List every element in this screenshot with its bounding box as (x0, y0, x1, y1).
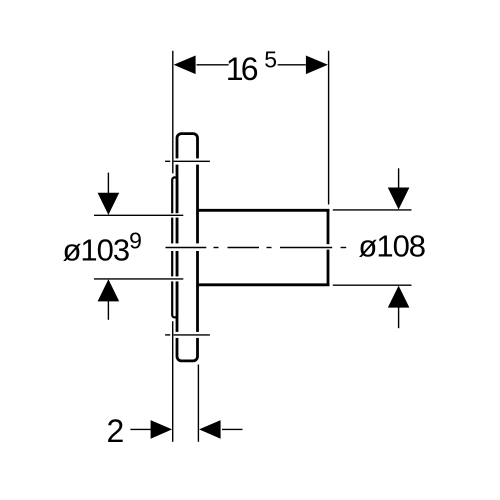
dia 108 bottom extension line (333, 284, 412, 286)
dia 103.9 bottom arrow leader (107, 301, 109, 320)
white gaps where centerlines cross outlines (171, 158, 330, 338)
dia 108 bottom arrow leader (398, 307, 400, 328)
bolt-circle tick bottom (165, 334, 170, 336)
arrow left (dim 16.5) (174, 56, 196, 75)
svg-text:6: 6 (241, 51, 259, 87)
svg-text:5: 5 (264, 46, 277, 72)
dim 16.5 left extension line (172, 51, 174, 174)
centerline (166, 247, 207, 249)
dim 16.5 dimension line (197, 64, 229, 66)
pipe bottom outline (198, 283, 329, 286)
dia 103.9 top extension line (94, 214, 183, 216)
svg-text:ø103: ø103 (63, 233, 130, 268)
dim 16.5 right extension line (328, 51, 330, 205)
arrow up (dia 108) (388, 286, 410, 308)
arrow right (dim 16.5) (306, 56, 328, 75)
dia 108 top extension line (333, 209, 412, 211)
svg-text:9: 9 (129, 227, 142, 253)
seal collar strip (172, 177, 177, 317)
arrow up (dia 103.9) (98, 279, 120, 301)
arrow down (dia 108) (388, 188, 410, 210)
svg-text:2: 2 (107, 413, 125, 449)
arrow right (dim 2) (151, 420, 173, 439)
dim 2 right extension line (197, 365, 199, 442)
dim 2 leader left (130, 428, 151, 430)
bolt-circle tick top (165, 160, 170, 162)
pipe top outline (198, 209, 329, 212)
pipe end (right edge) (327, 209, 330, 286)
dim 2 leader right (222, 428, 243, 430)
svg-text:ø108: ø108 (358, 229, 425, 264)
dia 103.9 top arrow leader (107, 173, 109, 193)
dia 108 top arrow leader (398, 168, 400, 188)
arrow left (dim 2) (199, 420, 221, 439)
dia 103.9 bottom extension line (94, 278, 183, 280)
dim 2 left extension line (172, 321, 174, 442)
flange plate (wall collar) (177, 134, 198, 361)
arrow down (dia 103.9) (98, 193, 120, 215)
